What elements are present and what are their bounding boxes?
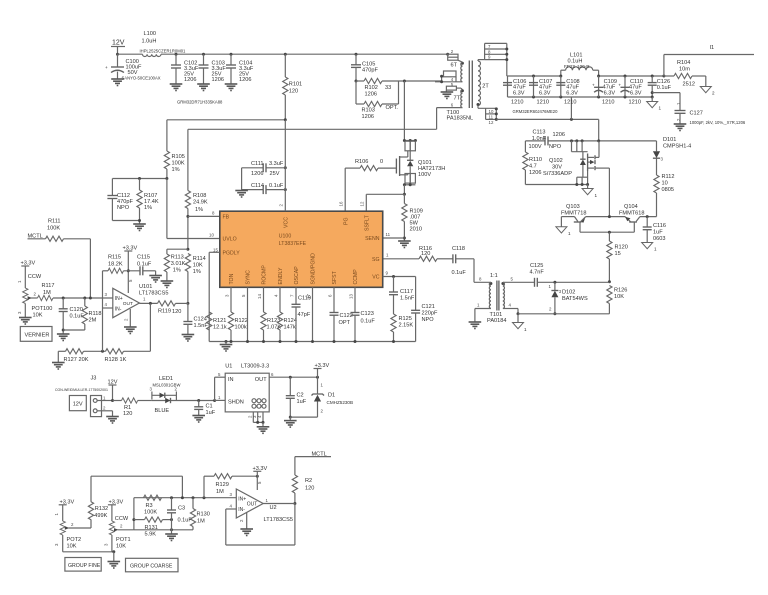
svg-text:11: 11 [386, 232, 391, 237]
svg-text:IN: IN [228, 377, 234, 383]
svg-text:FB: FB [223, 215, 230, 221]
svg-text:0.1uF: 0.1uF [452, 270, 467, 276]
svg-text:4: 4 [509, 303, 512, 308]
svg-text:C127: C127 [690, 111, 703, 117]
capacitor C122 on SFST [330, 287, 353, 343]
capacitor C111 [242, 161, 287, 177]
resistor R111 [46, 219, 91, 299]
svg-text:TON: TON [229, 273, 235, 284]
svg-text:100K: 100K [144, 510, 157, 516]
svg-text:3.3uF: 3.3uF [269, 161, 284, 167]
ground under R109 [398, 241, 411, 248]
node MCTL bottom [295, 451, 331, 457]
capacitor C1 [194, 399, 216, 416]
capacitor C121 [411, 304, 438, 342]
wire VC node [383, 271, 416, 311]
capacitor C2 [286, 377, 318, 420]
svg-text:PG: PG [343, 218, 349, 226]
svg-text:2: 2 [549, 307, 552, 312]
svg-text:1210: 1210 [564, 100, 576, 106]
resistor R122 on TON [228, 287, 247, 343]
ground under U1 [257, 427, 270, 434]
svg-text:LT3837EFE: LT3837EFE [279, 241, 307, 247]
svg-text:100V: 100V [418, 172, 431, 178]
capacitor C103 [197, 53, 226, 91]
svg-text:16: 16 [339, 201, 344, 206]
svg-text:10: 10 [209, 233, 214, 238]
svg-text:LT3009-3.3: LT3009-3.3 [241, 364, 269, 370]
svg-text:1: 1 [17, 280, 22, 283]
MOSFET Q101 drain comb [403, 139, 417, 151]
MOSFET Q102 source comb [525, 171, 589, 186]
resistor R130 [190, 498, 209, 530]
svg-text:R126: R126 [614, 288, 627, 294]
svg-text:C3: C3 [178, 506, 185, 512]
svg-text:R2: R2 [305, 478, 312, 484]
svg-text:1M: 1M [197, 519, 205, 525]
wire main 12V rail [118, 53, 448, 55]
svg-text:R101: R101 [289, 82, 302, 88]
svg-text:R111: R111 [48, 219, 61, 225]
svg-text:2010: 2010 [410, 227, 422, 233]
svg-text:0.1uF: 0.1uF [137, 262, 152, 268]
svg-text:1%: 1% [173, 268, 181, 274]
svg-text:2M: 2M [89, 318, 97, 324]
svg-text:5: 5 [511, 277, 514, 282]
svg-text:1206: 1206 [239, 77, 251, 83]
svg-text:4.7: 4.7 [529, 164, 537, 170]
svg-text:1: 1 [386, 253, 389, 258]
svg-text:NPO: NPO [549, 144, 562, 150]
svg-text:R117: R117 [42, 283, 55, 289]
resistor R132 [88, 476, 108, 528]
svg-text:UVLO: UVLO [223, 237, 237, 243]
svg-text:VERNIER: VERNIER [25, 333, 50, 339]
svg-text:2: 2 [279, 204, 284, 207]
wire UVLO tap line y=119.8 [167, 118, 287, 121]
svg-text:0: 0 [380, 159, 383, 165]
svg-text:1%: 1% [144, 205, 152, 211]
svg-text:R114: R114 [193, 256, 206, 262]
inductor L100 [140, 31, 187, 57]
potentiometer POT2 [54, 521, 91, 552]
resistor R123 on ROCMP [261, 287, 281, 343]
svg-text:C116: C116 [653, 223, 666, 229]
svg-text:12.1k: 12.1k [213, 325, 227, 331]
svg-text:6T: 6T [451, 63, 458, 69]
transformer T100 7T winding [454, 89, 464, 107]
capacitor C106 [503, 76, 526, 106]
wire D102 return [518, 313, 609, 315]
svg-text:BLUE: BLUE [155, 408, 170, 414]
svg-text:OPT.: OPT. [386, 105, 399, 111]
ground under C2 [284, 421, 297, 428]
svg-text:8: 8 [212, 211, 215, 216]
svg-text:FMMT718: FMMT718 [561, 211, 587, 217]
capacitor C105 [351, 53, 378, 81]
svg-text:R125: R125 [399, 316, 412, 322]
svg-text:CON-WEIDMULLER-1775002001: CON-WEIDMULLER-1775002001 [55, 388, 108, 392]
svg-text:R104: R104 [677, 60, 690, 66]
svg-text:D102: D102 [562, 290, 575, 296]
transformer T100 secondary pins 10,11,12 [478, 106, 498, 125]
wire SYNC [246, 287, 249, 343]
svg-text:1: 1 [266, 498, 269, 503]
resistor R117 [38, 283, 113, 301]
capacitor C107 [529, 75, 552, 106]
wire R132 top to node [91, 476, 182, 498]
svg-text:U101: U101 [139, 284, 152, 290]
svg-text:R120: R120 [615, 245, 628, 251]
potentiometer POT1 [103, 521, 133, 552]
resistor R119 [139, 301, 188, 315]
svg-text:R106: R106 [355, 159, 368, 165]
svg-text:R119: R119 [158, 309, 171, 315]
svg-text:11: 11 [489, 114, 494, 119]
node FB [186, 211, 219, 218]
svg-text:C124: C124 [194, 317, 207, 323]
ground 1 under C126 [647, 97, 662, 111]
svg-text:1%: 1% [172, 167, 180, 173]
svg-text:FP2S-100-R: FP2S-100-R [564, 64, 590, 69]
svg-text:SYNC: SYNC [246, 270, 252, 285]
svg-text:OUT: OUT [123, 301, 133, 307]
svg-text:33: 33 [385, 85, 391, 91]
svg-text:1M: 1M [216, 489, 224, 495]
resistor R129 [204, 474, 259, 498]
svg-text:4: 4 [105, 302, 108, 307]
svg-text:C121: C121 [422, 304, 435, 310]
svg-text:9: 9 [386, 271, 389, 276]
node 12V LDO [108, 380, 118, 403]
svg-text:U1: U1 [225, 364, 232, 370]
transistor Q103 [561, 204, 587, 232]
svg-text:24.9K: 24.9K [193, 200, 208, 206]
op-amp U101 [103, 271, 169, 327]
svg-text:D1: D1 [328, 393, 335, 399]
resistor R2 [292, 457, 314, 505]
wire snubber to drain [399, 80, 442, 141]
svg-text:VCC: VCC [284, 217, 290, 228]
capacitor C104 [225, 53, 254, 91]
svg-text:1206: 1206 [529, 170, 541, 176]
svg-text:C111: C111 [251, 161, 264, 167]
svg-text:IN+: IN+ [115, 296, 123, 302]
label GROUP FINE box [65, 558, 101, 572]
svg-text:20K: 20K [79, 357, 89, 363]
capacitor C115 [137, 255, 156, 276]
svg-text:BAT54WS: BAT54WS [562, 296, 588, 302]
resistor R1 [113, 398, 152, 417]
ground 1 under Q102 source [582, 185, 597, 199]
svg-text:1210: 1210 [629, 100, 641, 106]
svg-text:10K: 10K [116, 544, 126, 550]
svg-text:Q104: Q104 [624, 204, 638, 210]
svg-text:CCW: CCW [115, 516, 129, 522]
svg-text:12V: 12V [73, 402, 83, 408]
capacitor C119 on OSCAP [292, 287, 311, 343]
wire pot gnd rail [63, 550, 116, 561]
svg-text:1uF: 1uF [653, 230, 663, 236]
wire secondary return [496, 97, 598, 141]
node +3.3V pot supply [17, 261, 42, 289]
resistor R120 [607, 232, 628, 282]
transformer T100 pin 5 to ground [441, 82, 463, 98]
resistor R127 [58, 349, 105, 363]
svg-text:SSFLT: SSFLT [365, 214, 371, 231]
svg-text:10: 10 [662, 181, 668, 187]
wire wiper line to R130 [134, 528, 193, 531]
svg-text:499K: 499K [94, 513, 107, 519]
transformer T100 6T winding [451, 62, 464, 82]
svg-text:R113: R113 [171, 255, 184, 261]
LED LED1 [150, 376, 215, 414]
diode D101 [653, 137, 691, 175]
ground at R127 [52, 363, 65, 370]
MOSFET Q101 source comb [403, 174, 416, 195]
svg-text:2: 2 [103, 406, 106, 411]
resistor R118 [63, 298, 101, 330]
svg-text:1.5nF: 1.5nF [400, 296, 415, 302]
svg-text:2: 2 [321, 409, 324, 414]
svg-text:PGDLY: PGDLY [223, 251, 241, 257]
wire FB sense line y=129.3 [188, 128, 437, 130]
U1 gnd pins [247, 412, 264, 427]
svg-text:6.3V: 6.3V [604, 90, 616, 96]
MOSFET Q102 [543, 141, 609, 217]
svg-text:2.15K: 2.15K [399, 323, 414, 329]
svg-text:J3: J3 [91, 376, 97, 382]
svg-text:LT1783CS5: LT1783CS5 [264, 517, 293, 523]
svg-text:CMHZ5230B: CMHZ5230B [327, 400, 354, 405]
resistor R108 [185, 129, 208, 249]
label VERNIER box [20, 327, 52, 342]
svg-text:13: 13 [348, 294, 353, 299]
svg-text:SFST: SFST [332, 270, 338, 284]
svg-text:OUT: OUT [247, 502, 258, 508]
svg-text:C2: C2 [297, 393, 304, 399]
svg-text:1: 1 [143, 297, 146, 302]
wire C113 rail [525, 139, 656, 142]
svg-text:+: + [618, 83, 621, 88]
svg-text:2: 2 [239, 519, 244, 522]
svg-text:1: 1 [549, 284, 552, 289]
label GROUP COARSE box [126, 558, 179, 572]
svg-text:POT100: POT100 [32, 306, 53, 312]
svg-text:1.0nF: 1.0nF [532, 136, 547, 142]
svg-text:7T: 7T [454, 96, 461, 102]
svg-text:Q103: Q103 [566, 204, 580, 210]
svg-text:ROCMP: ROCMP [262, 265, 268, 285]
capacitor C114 [242, 168, 287, 194]
transformer T101 [474, 273, 507, 324]
svg-text:SGND/PGND: SGND/PGND [311, 253, 317, 285]
pin numbers bottom [224, 294, 353, 299]
transformer T100 core [469, 61, 472, 109]
svg-text:2: 2 [120, 524, 123, 529]
ground 2 after R104 [700, 76, 715, 96]
svg-text:1000pF, 2kV, 10%,_X7R,1206: 1000pF, 2kV, 10%,_X7R,1206 [690, 120, 746, 125]
svg-text:3: 3 [661, 157, 664, 162]
svg-text:14: 14 [257, 294, 262, 299]
svg-text:1: 1 [654, 247, 657, 252]
svg-text:8: 8 [488, 49, 491, 54]
svg-text:3: 3 [103, 543, 108, 546]
ground rail under IC [209, 340, 415, 351]
transformer T100 secondary pins 7,8,9 [478, 43, 508, 76]
svg-text:1: 1 [103, 395, 106, 400]
svg-text:SANYO-50CE100AX: SANYO-50CE100AX [122, 75, 161, 80]
ground at T101 pin1 [469, 303, 491, 329]
svg-text:PA1835NL: PA1835NL [447, 116, 474, 122]
resistor R105 [164, 120, 185, 179]
svg-text:2: 2 [34, 292, 37, 297]
svg-text:C123: C123 [361, 311, 374, 317]
svg-text:5.9K: 5.9K [145, 532, 157, 538]
svg-text:OSCAP: OSCAP [294, 266, 300, 285]
ground under R113 [161, 281, 174, 288]
svg-text:C118: C118 [452, 246, 465, 252]
svg-text:6.3V: 6.3V [630, 90, 642, 96]
svg-text:U2: U2 [270, 505, 277, 511]
svg-text:R121: R121 [213, 318, 226, 324]
svg-text:R132: R132 [95, 506, 108, 512]
resistor R101 [283, 53, 302, 120]
svg-text:1M: 1M [43, 290, 51, 296]
capacitor C116 [643, 217, 666, 243]
ground under C120 [57, 334, 70, 341]
svg-text:7: 7 [289, 294, 294, 297]
svg-text:1210: 1210 [537, 100, 549, 106]
svg-text:R103: R103 [362, 108, 375, 114]
svg-text:7: 7 [488, 44, 491, 49]
svg-text:2: 2 [71, 522, 74, 527]
svg-text:6: 6 [271, 372, 274, 377]
resistor R126 [607, 280, 628, 314]
svg-text:10K: 10K [614, 294, 624, 300]
wire U2 feedback [226, 504, 295, 546]
svg-text:6.3V: 6.3V [566, 90, 578, 96]
svg-text:GRM32DR71H335KA88: GRM32DR71H335KA88 [177, 100, 223, 105]
ground under C1 [192, 416, 205, 423]
resistor R131 [134, 517, 173, 538]
svg-text:1206: 1206 [184, 77, 196, 83]
svg-text:R127: R127 [64, 357, 77, 363]
svg-text:10m: 10m [679, 67, 690, 73]
regulator U1 LT3009 [213, 364, 274, 412]
svg-text:1: 1 [54, 513, 59, 516]
svg-text:Si7336ADP: Si7336ADP [543, 171, 572, 177]
svg-text:0603: 0603 [653, 236, 665, 242]
node SENN [383, 232, 406, 240]
svg-text:R112: R112 [662, 174, 675, 180]
wire T101 pin4 [503, 303, 527, 333]
svg-text:1: 1 [659, 106, 662, 111]
capacitor C127 [652, 93, 746, 125]
svg-text:NPO: NPO [422, 317, 435, 323]
svg-text:C113: C113 [533, 130, 546, 136]
svg-text:NPO: NPO [117, 205, 130, 211]
svg-text:PA0184: PA0184 [487, 318, 507, 324]
svg-text:0805: 0805 [662, 187, 674, 193]
svg-text:0.1uF: 0.1uF [269, 183, 284, 189]
svg-text:SHDN: SHDN [228, 400, 244, 406]
svg-text:R110: R110 [529, 157, 542, 163]
ground at C115 [149, 276, 162, 283]
node +3.3V pot1 [108, 499, 129, 522]
ground under C127 [674, 124, 687, 131]
svg-text:10K: 10K [193, 263, 203, 269]
resistor R125 [391, 314, 413, 343]
svg-text:1K: 1K [120, 357, 127, 363]
svg-text:GROUP FINE: GROUP FINE [68, 563, 101, 569]
svg-text:6.3V: 6.3V [539, 90, 551, 96]
capacitor C110 polarized [618, 75, 643, 106]
wire base rail [580, 231, 634, 234]
transformer T100 2T secondary winding [477, 61, 490, 106]
svg-text:3: 3 [54, 543, 59, 546]
svg-text:1210: 1210 [511, 100, 523, 106]
svg-text:1uF: 1uF [297, 399, 307, 405]
wire U1 OUT rail [269, 376, 319, 379]
wire U2 out [263, 503, 295, 505]
svg-text:CCW: CCW [28, 274, 42, 280]
capacitor C126 [648, 75, 672, 99]
svg-text:5: 5 [241, 294, 246, 297]
ground 1 under C116 [642, 243, 657, 252]
svg-text:147k: 147k [284, 325, 296, 331]
potentiometer POT100 [17, 288, 52, 319]
svg-text:10K: 10K [33, 313, 43, 319]
svg-text:SENN: SENN [365, 236, 380, 242]
svg-text:4: 4 [230, 504, 233, 509]
resistor R113 [164, 248, 189, 281]
node 12V input label [111, 40, 125, 56]
capacitor C125 [503, 263, 610, 287]
pin numbers top [213, 201, 365, 252]
svg-text:4: 4 [273, 294, 278, 297]
svg-text:1%: 1% [195, 207, 203, 213]
svg-text:R122: R122 [235, 318, 248, 324]
svg-text:R105: R105 [172, 154, 185, 160]
svg-text:120: 120 [289, 89, 298, 95]
capacitor C123 on CCMP [351, 287, 376, 343]
wire SGND/PGND [311, 287, 314, 343]
wire output rail top [507, 75, 664, 77]
svg-text:2: 2 [123, 318, 128, 321]
svg-text:U100: U100 [279, 234, 292, 240]
svg-text:120: 120 [172, 309, 181, 315]
transformer T100 pin 4 tap [435, 71, 462, 83]
svg-text:C115: C115 [137, 255, 150, 261]
wire emitters junction [586, 215, 625, 218]
svg-text:120: 120 [421, 251, 430, 257]
svg-text:1: 1 [595, 193, 598, 198]
resistor R121 [207, 312, 227, 331]
svg-text:1206: 1206 [553, 132, 565, 138]
svg-text:12: 12 [360, 201, 365, 206]
svg-text:R129: R129 [216, 482, 229, 488]
resistor R107 [137, 179, 159, 225]
capacitor C102 [170, 53, 199, 91]
label 12V box [69, 396, 86, 411]
svg-text:6: 6 [451, 102, 454, 107]
wire output rail bottom [508, 96, 653, 98]
ground under pots [108, 562, 121, 569]
svg-text:470pF: 470pF [362, 68, 378, 74]
svg-text:R124: R124 [284, 318, 297, 324]
capacitor C117 [389, 277, 415, 315]
